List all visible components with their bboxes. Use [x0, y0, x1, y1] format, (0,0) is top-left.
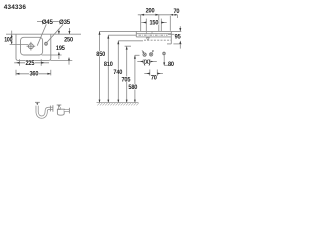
svg-text:360: 360	[30, 71, 39, 78]
fixing hole 2	[149, 53, 152, 56]
height label 580	[128, 84, 138, 89]
svg-text:(X): (X)	[144, 59, 151, 66]
dim 95 (right)	[168, 26, 182, 48]
svg-text:434336: 434336	[4, 4, 27, 11]
svg-text:705: 705	[122, 76, 131, 83]
svg-text:250: 250	[64, 37, 73, 44]
svg-text:70: 70	[173, 8, 180, 15]
svg-text:580: 580	[128, 84, 137, 91]
svg-text:195: 195	[56, 45, 65, 52]
svg-text:70: 70	[151, 74, 158, 81]
bottom arrows (down at floor)	[99, 100, 136, 103]
wire back wall line	[6, 33, 81, 35]
svg-text:150: 150	[150, 20, 159, 27]
bottle trap	[57, 107, 69, 115]
P-trap inlet arrow	[35, 102, 40, 103]
floor hatching	[97, 103, 138, 105]
fixing hole 1	[143, 53, 146, 56]
basin outer rect	[16, 34, 51, 60]
basin front view body	[136, 31, 171, 44]
dim 70 (bottom)	[144, 70, 163, 76]
svg-text:100: 100	[4, 36, 13, 43]
bottle trap inlet arrow	[57, 105, 62, 106]
svg-text:200: 200	[146, 7, 155, 14]
height label 740	[113, 69, 123, 74]
drain funnel mark under front view	[146, 38, 149, 41]
height label 850	[96, 51, 106, 56]
dim X	[137, 59, 157, 63]
drain hole cross-circle	[27, 42, 36, 51]
svg-text:80: 80	[168, 61, 175, 68]
floor line	[97, 102, 139, 104]
rim top line	[100, 30, 182, 32]
dim 225	[14, 59, 49, 66]
level stub 705	[125, 45, 131, 47]
leader arrow onto fixing hole 2	[152, 50, 154, 52]
level line 740	[118, 40, 143, 42]
small hole 3	[163, 52, 166, 56]
level stub 580	[135, 54, 140, 56]
dim 150	[141, 19, 166, 32]
svg-text:810: 810	[104, 61, 113, 68]
svg-text:Ø35: Ø35	[59, 19, 71, 26]
leader arrow onto fixing hole 1	[142, 50, 144, 52]
dim 360	[16, 70, 51, 76]
dim 250 (vertical right)	[51, 28, 73, 65]
tap hole	[45, 42, 48, 46]
dim 195 (vertical right)	[42, 29, 62, 59]
svg-text:740: 740	[113, 69, 122, 76]
dim 70 (top)	[170, 15, 177, 31]
height dim lines	[100, 31, 135, 102]
P-trap	[37, 105, 53, 117]
dim 80 leader	[164, 55, 168, 65]
height label 810	[103, 61, 113, 66]
svg-text:Ø45: Ø45	[42, 19, 54, 26]
height label 705	[121, 76, 131, 81]
dim 200 (top)	[138, 15, 178, 31]
connector between labels	[53, 21, 59, 23]
svg-text:850: 850	[96, 51, 105, 58]
basin bowl	[21, 37, 43, 55]
svg-text:225: 225	[26, 60, 35, 67]
leader line for D35	[47, 24, 63, 42]
dim 100	[10, 31, 28, 45]
svg-text:95: 95	[175, 34, 182, 41]
leader line for D45	[37, 22, 46, 46]
level line 810	[108, 34, 136, 36]
top arrows (up)	[99, 31, 136, 58]
